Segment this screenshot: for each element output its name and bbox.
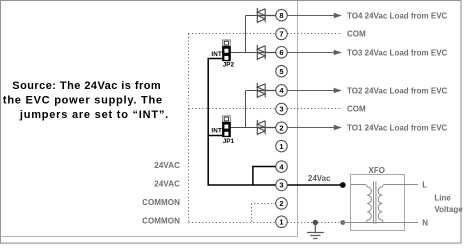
- ground symbol: [307, 223, 324, 239]
- transformer core lines: [374, 181, 376, 223]
- arrow wire TO3 output: [287, 50, 342, 55]
- transformer XFO box: [351, 175, 405, 231]
- left terminal labels: [142, 161, 180, 225]
- svg-text:Source: The 24Vac is from: Source: The 24Vac is from: [12, 80, 161, 92]
- EVC device outline box: [1, 1, 298, 237]
- lower terminal numbers: [279, 162, 284, 226]
- terminal 2: [276, 122, 288, 134]
- secondary winding: [378, 185, 404, 223]
- svg-text:3: 3: [279, 105, 283, 114]
- wire transformer N side (through bottom): [343, 222, 418, 224]
- dotted COM wire to terminal 7: [189, 33, 342, 35]
- jumper JP1: [222, 116, 231, 137]
- svg-text:5: 5: [279, 67, 283, 76]
- lower terminal strip circles: [276, 161, 288, 228]
- wire JP2 to triac row6: [231, 52, 257, 54]
- triac Q1 (terminal 2 row): [257, 120, 276, 135]
- gate bus lower (triac row4/row2/JP1): [245, 91, 247, 128]
- terminal 6: [276, 47, 288, 59]
- svg-text:N: N: [422, 218, 428, 227]
- triac Q3 (terminal 6 row): [257, 45, 276, 60]
- main 24VAC bus wire (JP2 pin 3 down to lower terminal 3): [208, 59, 276, 186]
- svg-text:JP1: JP1: [223, 138, 235, 145]
- svg-text:XFO: XFO: [369, 166, 385, 175]
- arrow wire TO1 output: [287, 125, 342, 130]
- triac Q4 (terminal 8 row): [257, 8, 276, 23]
- svg-text:7: 7: [279, 30, 283, 39]
- svg-text:JP2: JP2: [223, 62, 235, 69]
- svg-text:L: L: [422, 181, 427, 190]
- wire L: [405, 184, 419, 186]
- JP1 pin 3 wire to bus: [208, 135, 222, 137]
- svg-text:Voltage: Voltage: [434, 205, 463, 214]
- terminal 1 (lower strip): [276, 216, 288, 228]
- dotted COMMON wire to terminal 1 (lower): [189, 222, 343, 224]
- terminal 4 (lower strip): [276, 161, 288, 173]
- svg-text:jumpers are set to “INT”.: jumpers are set to “INT”.: [19, 109, 169, 121]
- svg-text:2: 2: [279, 123, 283, 132]
- svg-text:TO2 24Vac Load from EVC: TO2 24Vac Load from EVC: [347, 86, 448, 95]
- terminal 8: [276, 9, 288, 21]
- svg-text:INT: INT: [211, 128, 222, 135]
- svg-text:8: 8: [279, 11, 283, 20]
- terminal 1: [276, 140, 288, 152]
- terminal 7: [276, 28, 288, 40]
- svg-text:TO1 24Vac Load from EVC: TO1 24Vac Load from EVC: [347, 123, 448, 132]
- arrow wire TO4 output: [287, 13, 342, 18]
- svg-text:3: 3: [279, 181, 283, 190]
- output load labels: [347, 11, 448, 132]
- svg-text:COMMON: COMMON: [142, 198, 180, 207]
- svg-text:Line: Line: [434, 193, 451, 202]
- svg-text:6: 6: [279, 48, 283, 57]
- terminal 3 (lower strip): [276, 179, 288, 191]
- jumper wire lower terminal 4 to 3: [253, 167, 276, 186]
- junction dot 24Vac node: [340, 182, 346, 188]
- jumper JP2: [222, 40, 231, 61]
- junction dot ground node: [313, 220, 318, 225]
- dotted jumper wire to terminal 2 (lower): [252, 204, 276, 223]
- wire triac row4 left: [246, 90, 258, 92]
- svg-text:1: 1: [279, 142, 283, 151]
- terminal 5: [276, 65, 288, 77]
- svg-text:1: 1: [279, 218, 283, 227]
- dotted common bus (left vertical): [188, 34, 190, 223]
- svg-text:COMMON: COMMON: [142, 216, 180, 225]
- source note text: [3, 80, 169, 121]
- terminal 2 (lower strip): [276, 198, 288, 210]
- triac Q2 (terminal 4 row): [257, 83, 276, 98]
- svg-text:24Vac: 24Vac: [308, 174, 331, 183]
- svg-text:24VAC: 24VAC: [154, 161, 180, 170]
- svg-text:the EVC power supply. The: the EVC power supply. The: [3, 94, 163, 106]
- junction dot transformer common: [340, 220, 345, 225]
- dotted COM wire to terminal 3: [189, 108, 342, 110]
- wire triac row8 left: [246, 15, 258, 17]
- svg-text:TO4 24Vac Load from EVC: TO4 24Vac Load from EVC: [347, 11, 448, 20]
- svg-text:24VAC: 24VAC: [154, 180, 180, 189]
- gate bus upper (triac row8/row6/JP2): [245, 16, 247, 53]
- terminal 3: [276, 103, 288, 115]
- arrow wire TO2 output: [287, 88, 342, 93]
- svg-text:2: 2: [279, 199, 283, 208]
- svg-text:COM: COM: [347, 29, 366, 38]
- svg-text:COM: COM: [347, 104, 366, 113]
- 24Vac wire lower terminal 3 to transformer: [287, 184, 343, 186]
- label Line Voltage: [434, 193, 463, 214]
- terminal 4: [276, 85, 288, 97]
- upper terminal numbers: [279, 11, 284, 151]
- wire JP1 to triac row2: [231, 127, 257, 129]
- primary winding: [351, 185, 372, 223]
- upper terminal strip circles: [276, 9, 288, 151]
- svg-text:TO3 24Vac Load from EVC: TO3 24Vac Load from EVC: [347, 48, 448, 57]
- svg-text:INT: INT: [211, 51, 222, 58]
